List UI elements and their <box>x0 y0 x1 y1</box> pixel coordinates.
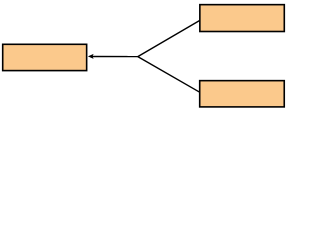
wire upper diagonal <box>138 20 200 56</box>
arrowhead <box>88 54 94 59</box>
box bottom-right <box>200 81 285 107</box>
wire lower diagonal <box>138 57 200 93</box>
box top-right <box>200 5 284 32</box>
box left <box>3 44 87 70</box>
wire horizontal arrow shaft <box>92 56 139 58</box>
